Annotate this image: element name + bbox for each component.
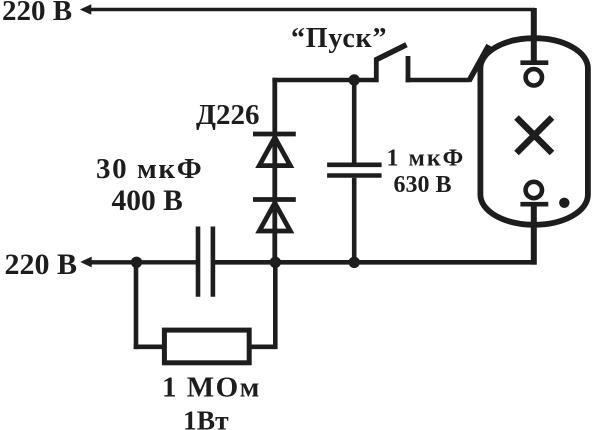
- svg-text:Д226: Д226: [196, 99, 259, 131]
- svg-text:220 В: 220 В: [5, 248, 78, 281]
- svg-text:30 мкФ: 30 мкФ: [96, 153, 203, 185]
- svg-text:630 В: 630 В: [394, 172, 452, 198]
- svg-text:1 мкФ: 1 мкФ: [387, 146, 466, 172]
- svg-text:“Пуск”: “Пуск”: [291, 23, 387, 54]
- svg-text:220 В: 220 В: [2, 0, 72, 27]
- svg-text:1 МОм: 1 МОм: [162, 371, 261, 403]
- svg-text:400 В: 400 В: [112, 185, 183, 217]
- svg-text:1Вт: 1Вт: [183, 404, 229, 430]
